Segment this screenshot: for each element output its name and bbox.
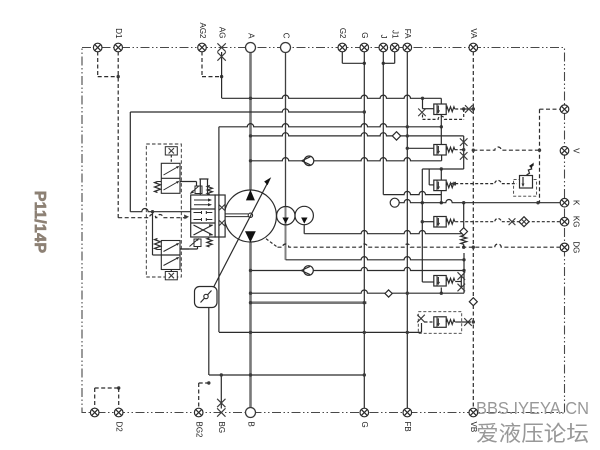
svg-text:爱液压论坛: 爱液压论坛 — [476, 422, 589, 446]
svg-text:J1: J1 — [391, 30, 400, 39]
svg-text:FA: FA — [403, 29, 412, 39]
svg-text:FB: FB — [403, 422, 412, 432]
svg-text:B: B — [246, 422, 255, 427]
svg-text:AG: AG — [217, 27, 226, 39]
svg-text:D1: D1 — [114, 28, 123, 39]
svg-text:BBS.IYEYA.CN: BBS.IYEYA.CN — [476, 398, 589, 418]
svg-text:G2: G2 — [338, 28, 347, 39]
svg-text:J: J — [379, 35, 388, 39]
svg-text:KG: KG — [572, 216, 581, 228]
svg-text:P11/14P: P11/14P — [31, 191, 48, 254]
svg-text:BG: BG — [217, 422, 226, 434]
svg-text:AG2: AG2 — [198, 22, 207, 39]
svg-text:C: C — [281, 33, 290, 39]
svg-text:D2: D2 — [115, 422, 124, 433]
svg-text:BG2: BG2 — [195, 422, 204, 439]
svg-text:A: A — [246, 33, 255, 39]
svg-text:DG: DG — [572, 241, 581, 253]
svg-text:VB: VB — [469, 422, 478, 433]
svg-text:G: G — [360, 32, 369, 38]
svg-text:V: V — [572, 148, 581, 154]
svg-text:K: K — [572, 200, 581, 206]
svg-text:G: G — [360, 422, 369, 428]
svg-text:VA: VA — [469, 28, 478, 39]
